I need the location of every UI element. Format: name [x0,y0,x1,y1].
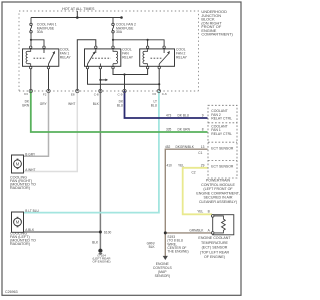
svg-text:M: M [16,220,20,225]
svg-text:YEL: YEL [178,164,184,168]
svg-text:C1: C1 [198,151,202,155]
svg-text:OF ENGINE): OF ENGINE) [204,255,225,259]
svg-text:S100: S100 [104,231,112,235]
svg-text:DK BLU: DK BLU [178,114,190,118]
svg-text:DKGRN/BLK: DKGRN/BLK [176,145,195,149]
svg-text:RADIATOR): RADIATOR) [10,242,30,246]
svg-text:TEMPERATURE: TEMPERATURE [201,241,228,245]
svg-text:F2: F2 [43,93,47,97]
svg-text:WHT: WHT [68,102,75,106]
svg-text:B GRY: B GRY [25,153,36,157]
svg-text:29: 29 [201,164,205,168]
svg-text:B: B [208,209,210,213]
svg-text:A WHT: A WHT [25,168,35,172]
svg-text:30A: 30A [116,30,123,34]
svg-text:13: 13 [201,145,205,149]
svg-text:RELAY: RELAY [176,56,188,60]
svg-text:BLU: BLU [151,103,158,107]
svg-text:HOT AT ALL TIMES: HOT AT ALL TIMES [62,7,95,11]
svg-text:410: 410 [167,164,173,168]
svg-text:THE ENGINE): THE ENGINE) [167,250,188,254]
svg-text:YEL: YEL [197,209,203,213]
svg-text:RELAY: RELAY [60,56,72,60]
svg-text:BLK: BLK [149,245,156,249]
svg-text:M: M [16,161,20,166]
svg-text:ECT SENSOR: ECT SENSOR [211,146,234,150]
svg-text:335: 335 [166,128,172,132]
svg-text:GRN: GRN [22,103,30,107]
svg-text:RELAY CTRL: RELAY CTRL [211,117,232,121]
svg-text:K3: K3 [24,92,28,96]
svg-text:RADIATOR): RADIATOR) [10,186,30,190]
svg-text:POWERTRAIN: POWERTRAIN [206,178,231,182]
svg-text:C-9: C-9 [118,93,123,97]
svg-text:B LT BLU: B LT BLU [25,209,39,213]
svg-text:473: 473 [166,114,172,118]
svg-text:ECT SENSOR: ECT SENSOR [211,165,234,169]
svg-text:BLK: BLK [92,240,99,244]
svg-text:(TOP LEFT REAR: (TOP LEFT REAR [200,250,230,254]
svg-text:DK GRN: DK GRN [178,128,191,132]
svg-text:ENGINE COOLANT: ENGINE COOLANT [198,236,231,240]
svg-text:F6: F6 [152,92,156,96]
svg-text:BLU: BLU [117,103,124,107]
svg-text:GRY: GRY [40,102,48,106]
svg-text:GRN/BLK: GRN/BLK [189,229,204,233]
svg-text:C-8: C-8 [94,93,99,97]
svg-text:C2: C2 [192,170,196,174]
svg-text:(ECT) SENSOR: (ECT) SENSOR [202,246,228,250]
svg-text:8: 8 [202,128,204,132]
svg-text:9: 9 [202,114,204,118]
svg-text:COMPARTMENT): COMPARTMENT) [201,32,233,37]
svg-text:SECURED IN AIR: SECURED IN AIR [204,196,233,200]
svg-text:30A: 30A [37,30,44,34]
svg-text:C26963: C26963 [5,290,18,294]
svg-text:RELAY: RELAY [122,56,134,60]
svg-text:OF ENGINE): OF ENGINE) [92,260,110,264]
svg-text:452: 452 [165,145,171,149]
svg-text:CLEANER ASSEMBLY): CLEANER ASSEMBLY) [199,200,237,204]
svg-text:RELAY CTRL: RELAY CTRL [211,132,232,136]
svg-text:SENSOR): SENSOR) [155,274,170,278]
svg-text:E8: E8 [71,93,75,97]
svg-text:C-6: C-6 [162,92,167,96]
svg-text:BLK: BLK [93,102,100,106]
